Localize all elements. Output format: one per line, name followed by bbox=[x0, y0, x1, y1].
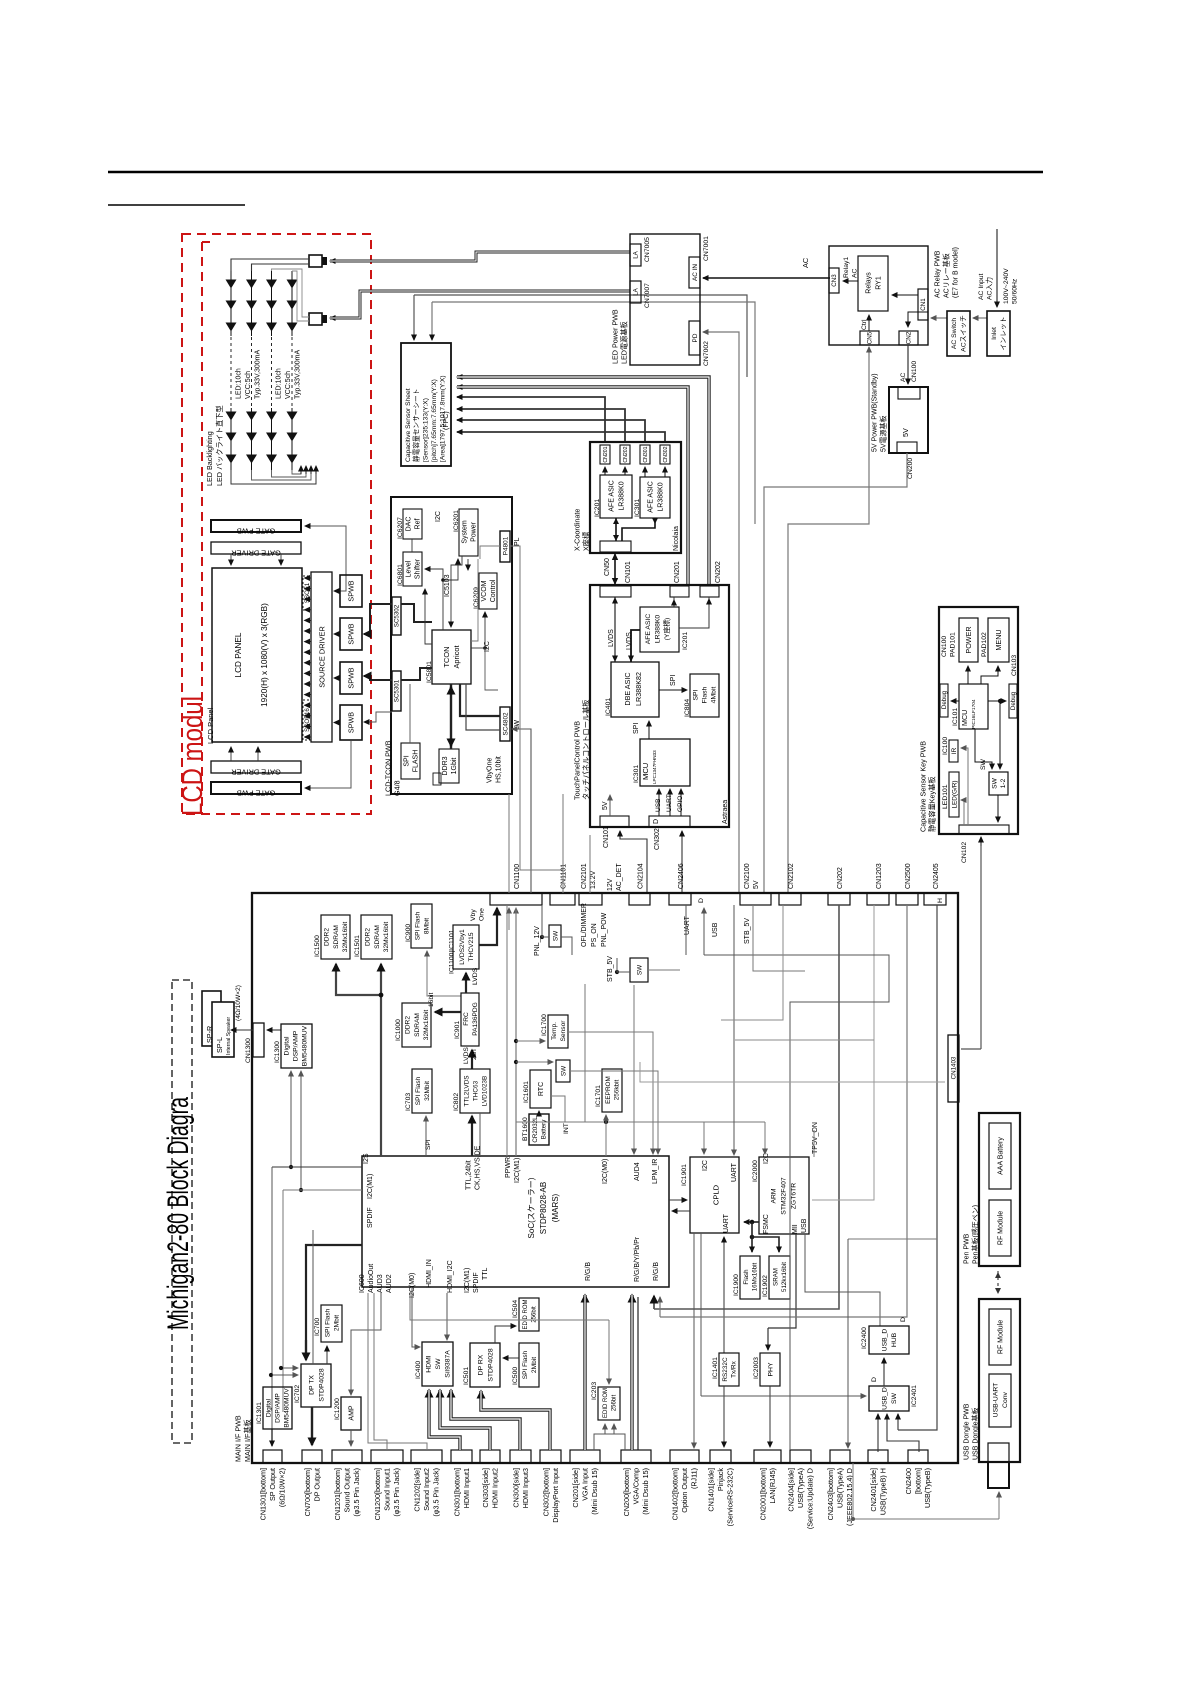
svg-text:32Mx16bit: 32Mx16bit bbox=[383, 922, 390, 953]
wire tcon-vcom i2c bbox=[471, 647, 485, 649]
CN1402 connector (bottom edge) bbox=[670, 1450, 699, 1463]
svg-text:SPDIF: SPDIF bbox=[367, 1207, 374, 1228]
dongle USB plug bbox=[988, 1462, 1009, 1488]
SW box (temp) bbox=[556, 1060, 570, 1082]
CN700 connector (bottom edge) bbox=[302, 1450, 322, 1463]
wire AC input to inlet bbox=[996, 229, 998, 307]
svg-text:Temp.: Temp. bbox=[551, 1022, 558, 1040]
svg-text:DSP/AMP: DSP/AMP bbox=[274, 1393, 281, 1423]
wire battery to RTC bbox=[538, 1111, 540, 1114]
svg-text:USB Dongle PWB: USB Dongle PWB bbox=[963, 1403, 970, 1460]
svg-text:ACスイッチ: ACスイッチ bbox=[960, 315, 968, 352]
svg-text:CN102: CN102 bbox=[961, 842, 968, 863]
svg-text:STDP4028: STDP4028 bbox=[318, 1368, 325, 1401]
svg-text:CN201[side]: CN201[side] bbox=[571, 1468, 580, 1508]
IC1100/IC1101 LVDS2Vby1 bbox=[453, 925, 479, 969]
pen-dongle dashed link bbox=[997, 1271, 999, 1294]
svg-text:One: One bbox=[479, 908, 486, 921]
wire cpld-option a bbox=[693, 1233, 695, 1447]
LCD-TCON PWB board bbox=[391, 497, 512, 794]
wire SPI to IC703 bbox=[425, 1116, 427, 1156]
wire CN202t-AFE bbox=[679, 597, 709, 628]
svg-text:CN101: CN101 bbox=[625, 561, 632, 583]
svg-text:LCD PANEL: LCD PANEL bbox=[234, 632, 243, 677]
wire tcon-ddr3 bus bbox=[450, 684, 452, 749]
wire SC5302 to SPWB bbox=[364, 604, 392, 634]
svg-text:AUD4: AUD4 bbox=[634, 1162, 641, 1181]
svg-text:CN2400: CN2400 bbox=[904, 1468, 913, 1494]
touch board top connector 1 bbox=[600, 586, 631, 597]
wire LED power run 2 (bus) bbox=[330, 291, 630, 318]
SW box (STB_5V) bbox=[630, 958, 648, 982]
svg-text:R/G/B: R/G/B bbox=[653, 1262, 660, 1281]
svg-text:CN2100: CN2100 bbox=[744, 863, 751, 889]
svg-text:(φ3.5 Pin Jack): (φ3.5 Pin Jack) bbox=[432, 1468, 441, 1517]
svg-text:1920(H) x 1080(V) x 3(RGB): 1920(H) x 1080(V) x 3(RGB) bbox=[260, 603, 269, 707]
svg-text:GATE DRIVER: GATE DRIVER bbox=[231, 549, 281, 558]
svg-text:IC1902: IC1902 bbox=[762, 1275, 769, 1297]
svg-text:AUD3: AUD3 bbox=[377, 1274, 384, 1293]
CN2101 connector (top edge) bbox=[579, 893, 602, 905]
svg-text:CN1101: CN1101 bbox=[561, 864, 568, 889]
wire arm-usb-hub bbox=[805, 1234, 880, 1326]
wire P4801 feed bbox=[480, 546, 500, 559]
Pen PWB board bbox=[979, 1113, 1020, 1266]
svg-text:LAN(RJ45): LAN(RJ45) bbox=[768, 1468, 777, 1504]
svg-text:LPM_IR: LPM_IR bbox=[652, 1159, 659, 1184]
svg-text:AMP: AMP bbox=[349, 1405, 356, 1421]
svg-text:STDP4028: STDP4028 bbox=[487, 1348, 494, 1381]
wire MCU to SW bbox=[975, 729, 992, 769]
svg-text:CPLD: CPLD bbox=[712, 1184, 721, 1205]
svg-text:IC1300: IC1300 bbox=[274, 1041, 281, 1063]
wire HUB-SW bbox=[883, 1358, 885, 1386]
LED connector 1 bbox=[309, 255, 322, 267]
svg-text:Digital: Digital bbox=[283, 1036, 290, 1055]
svg-text:PS_ON: PS_ON bbox=[591, 923, 598, 947]
svg-text:CN303[side]: CN303[side] bbox=[481, 1468, 490, 1508]
svg-text:Control: Control bbox=[490, 579, 497, 602]
svg-text:EDID ROM: EDID ROM bbox=[523, 1299, 529, 1329]
wire cn1100 up b bbox=[508, 794, 510, 893]
wire MCU to MENU pad bbox=[981, 666, 998, 684]
LCD module inner red dashed line bbox=[201, 242, 203, 814]
wire HDMI3 bus bbox=[451, 1390, 520, 1450]
svg-text:IC1901: IC1901 bbox=[681, 1164, 688, 1186]
CN200 connector (bottom edge) bbox=[621, 1450, 651, 1463]
svg-text:CN202: CN202 bbox=[623, 446, 629, 462]
SPWB to source driver arrow bbox=[334, 677, 340, 679]
svg-text:インレット: インレット bbox=[1001, 317, 1008, 351]
svg-text:USB(TypeA): USB(TypeA) bbox=[796, 1468, 805, 1508]
IC1301 digital DSP/AMP bbox=[263, 1387, 292, 1429]
AC Relay PWB board bbox=[829, 246, 928, 345]
svg-text:ZGT6TR: ZGT6TR bbox=[790, 1183, 797, 1210]
svg-text:VGA Input: VGA Input bbox=[581, 1468, 590, 1501]
IC401 DBE ASIC bbox=[611, 662, 659, 717]
svg-text:System: System bbox=[462, 520, 469, 544]
svg-text:IC1401: IC1401 bbox=[712, 1357, 719, 1379]
wire tcon-syspower bbox=[471, 559, 478, 641]
svg-text:SPI: SPI bbox=[404, 755, 411, 766]
LED string dashed continuation bbox=[271, 337, 273, 407]
svg-text:(φ3.5 Pin Jack): (φ3.5 Pin Jack) bbox=[352, 1468, 361, 1517]
svg-text:SPI Flash: SPI Flash bbox=[414, 911, 421, 940]
CN2403 connector (bottom edge) bbox=[830, 1450, 850, 1463]
svg-text:IC201: IC201 bbox=[682, 632, 689, 650]
IC1901 CPLD bbox=[690, 1157, 739, 1233]
svg-text:CN302: CN302 bbox=[654, 828, 661, 850]
svg-text:MCU: MCU bbox=[641, 763, 650, 780]
svg-text:5V電源基板: 5V電源基板 bbox=[878, 415, 887, 452]
SW 1-2 box bbox=[989, 772, 1008, 795]
svg-text:CN2: CN2 bbox=[906, 331, 913, 344]
svg-text:CN1200[bottom]: CN1200[bottom] bbox=[373, 1468, 382, 1520]
CN2406 connector (top edge) bbox=[669, 893, 691, 905]
CN3 connector bbox=[829, 268, 839, 293]
svg-text:LR388K0: LR388K0 bbox=[654, 615, 661, 644]
svg-text:LVDS2Vby1: LVDS2Vby1 bbox=[459, 929, 466, 965]
CN2102 connector (top edge) bbox=[779, 893, 801, 905]
wire DPTX aux bbox=[312, 1230, 314, 1364]
LA CN7007 connector bbox=[630, 281, 641, 303]
svg-text:PAD101: PAD101 bbox=[950, 632, 957, 657]
svg-text:ACリレー基板: ACリレー基板 bbox=[941, 253, 950, 298]
wire H bus bbox=[898, 905, 937, 1430]
svg-text:(6Ω/10W×2): (6Ω/10W×2) bbox=[278, 1468, 287, 1507]
svg-text:(Mini Dsub 15): (Mini Dsub 15) bbox=[641, 1468, 650, 1515]
wire i2c-cn1403 bbox=[640, 1062, 945, 1082]
svg-text:512kx16bit: 512kx16bit bbox=[781, 1262, 788, 1292]
svg-text:5V: 5V bbox=[602, 801, 609, 810]
capacitive sensor sheet box bbox=[401, 343, 451, 466]
svg-text:GATE PWB: GATE PWB bbox=[237, 789, 276, 798]
svg-text:CN1402[bottom]: CN1402[bottom] bbox=[671, 1468, 680, 1520]
wire THCV215 to CN1100 bbox=[479, 908, 497, 945]
svg-text:Level: Level bbox=[406, 560, 413, 577]
wire CN102 to IR bbox=[961, 748, 968, 825]
svg-text:G4/8: G4/8 bbox=[392, 780, 401, 796]
svg-text:Flash: Flash bbox=[743, 1269, 750, 1285]
svg-text:IC1700: IC1700 bbox=[541, 1014, 548, 1036]
svg-text:PPWR: PPWR bbox=[505, 1157, 512, 1178]
CN200 connector bbox=[897, 442, 917, 453]
svg-text:DDR2: DDR2 bbox=[365, 928, 372, 946]
svg-text:CR2032L: CR2032L bbox=[532, 1116, 539, 1143]
svg-text:SP Output: SP Output bbox=[268, 1468, 277, 1501]
wire IC1300 to CN1300 bbox=[267, 1029, 281, 1031]
wire hub link bbox=[848, 1238, 937, 1240]
svg-text:SC5301: SC5301 bbox=[394, 679, 401, 702]
svg-text:H: H bbox=[937, 898, 944, 903]
svg-text:I2C(M0): I2C(M0) bbox=[602, 1159, 609, 1184]
wire I2C to CPLD bbox=[703, 1122, 705, 1154]
svg-text:SW: SW bbox=[552, 930, 559, 941]
wire cn2500 bus bbox=[660, 905, 907, 1317]
wire hdmi i2c bbox=[446, 1293, 448, 1339]
svg-text:SSOF1: SSOF1 bbox=[304, 582, 311, 603]
wire sensor top feed 2 bbox=[432, 302, 755, 524]
svg-text:IC1501: IC1501 bbox=[354, 935, 361, 957]
wire hdmi-in bbox=[412, 1287, 419, 1347]
svg-text:SDRAM: SDRAM bbox=[374, 925, 381, 949]
Relays RY1 bbox=[858, 256, 888, 311]
wire DBE-flash SPI bbox=[659, 689, 687, 691]
svg-text:TouchPanelControl PWB: TouchPanelControl PWB bbox=[572, 721, 581, 800]
svg-text:TTL,24bit: TTL,24bit bbox=[465, 1160, 472, 1190]
svg-text:DSP/AMP: DSP/AMP bbox=[292, 1030, 299, 1061]
svg-text:CN100: CN100 bbox=[911, 361, 918, 382]
IC1900 flash bbox=[740, 1256, 760, 1299]
svg-text:IC203: IC203 bbox=[591, 1382, 598, 1400]
SPWB box 3 bbox=[340, 662, 362, 694]
wire AUD4 bbox=[633, 985, 635, 1154]
wire CN302-MCU (USB UART GPIO) bbox=[658, 789, 660, 816]
LED string dashed continuation bbox=[251, 337, 253, 407]
CN100 connector bbox=[898, 387, 920, 399]
wire HDMI1 bus bbox=[429, 1390, 460, 1450]
wire DisplayPort bus bbox=[481, 1391, 550, 1450]
wire IC5103 net bbox=[425, 569, 443, 630]
IC6207 DAC Ref bbox=[403, 509, 422, 539]
IC1000 DDR2 SDRAM bbox=[402, 1003, 431, 1047]
CN1203 connector (top edge) bbox=[867, 893, 889, 905]
wire PD to CN2100 bbox=[703, 332, 739, 893]
inlet box bbox=[987, 311, 1010, 356]
svg-text:POWER: POWER bbox=[964, 626, 973, 653]
svg-text:DDR2: DDR2 bbox=[324, 928, 331, 946]
wire sensor-CN301x bbox=[457, 420, 645, 442]
svg-text:DP RX: DP RX bbox=[477, 1354, 484, 1375]
svg-text:CN1300: CN1300 bbox=[245, 1038, 252, 1063]
wire sw-soc bbox=[570, 1071, 658, 1153]
svg-text:STDP8028-AB: STDP8028-AB bbox=[539, 1182, 548, 1234]
wire FRC to IC900 bbox=[427, 951, 461, 996]
wire AFE-Y to DBE (LVDS) bbox=[631, 630, 640, 662]
dongle edge connector bbox=[988, 1443, 1009, 1462]
svg-text:IC1500: IC1500 bbox=[314, 935, 321, 957]
svg-text:PHY: PHY bbox=[767, 1362, 774, 1376]
svg-text:Sound Input2: Sound Input2 bbox=[422, 1468, 431, 1511]
CN2404 connector (bottom edge) bbox=[790, 1450, 811, 1463]
wire CN201t-AFE bbox=[673, 597, 675, 607]
svg-text:CN2406: CN2406 bbox=[678, 863, 685, 889]
wire RS232C to CN1401 bbox=[723, 1386, 725, 1447]
wire I2C bus bbox=[516, 1121, 765, 1123]
svg-text:HDMI: HDMI bbox=[425, 1355, 432, 1372]
svg-text:Digital: Digital bbox=[265, 1398, 272, 1417]
CN2100 connector (top edge) bbox=[740, 893, 771, 905]
wire STB5V to SW bbox=[617, 958, 630, 972]
svg-text:TTL: TTL bbox=[482, 1267, 489, 1280]
panel-to-source-driver arrow column bbox=[305, 577, 312, 579]
svg-text:Sound Input1: Sound Input1 bbox=[383, 1468, 392, 1511]
svg-text:CN1201[bottom]: CN1201[bottom] bbox=[333, 1468, 342, 1520]
svg-text:(FPC): (FPC) bbox=[443, 411, 450, 430]
svg-text:SC5302: SC5302 bbox=[394, 604, 401, 627]
wire DPTX to IC700 bbox=[326, 1346, 328, 1364]
svg-text:SRAM: SRAM bbox=[772, 1268, 779, 1286]
svg-text:IC6207: IC6207 bbox=[397, 517, 404, 539]
svg-text:THC63: THC63 bbox=[472, 1080, 479, 1101]
svg-text:AC Switch: AC Switch bbox=[951, 318, 958, 350]
CN1201 connector (bottom edge) bbox=[332, 1450, 362, 1463]
svg-text:CN5: CN5 bbox=[867, 331, 874, 344]
svg-text:LA: LA bbox=[633, 250, 640, 258]
wire x-board to touch board bbox=[614, 553, 616, 585]
wire SC5301 to SPWB 2 bbox=[364, 712, 392, 722]
wire i2c-edid bbox=[410, 1293, 609, 1320]
svg-text:LCD Panel: LCD Panel bbox=[206, 707, 215, 744]
svg-text:MENU: MENU bbox=[994, 629, 1003, 650]
svg-text:Astraea: Astraea bbox=[722, 800, 729, 824]
svg-text:IC900: IC900 bbox=[405, 924, 412, 942]
FSMC bus bbox=[744, 1221, 759, 1223]
svg-text:Ctrl: Ctrl bbox=[861, 319, 868, 330]
SC5302 connector bbox=[392, 597, 401, 635]
svg-text:Conv: Conv bbox=[1002, 1391, 1009, 1407]
wire i2c down bbox=[485, 648, 498, 690]
svg-text:SoC(スケーラー): SoC(スケーラー) bbox=[527, 1177, 536, 1238]
svg-text:Pen PWB: Pen PWB bbox=[963, 1233, 970, 1264]
svg-text:[pitch]7.65mm:7.65mm(Y:X): [pitch]7.65mm:7.65mm(Y:X) bbox=[431, 379, 438, 462]
CN1100 connector (top edge) bbox=[490, 893, 542, 905]
svg-text:CN1203: CN1203 bbox=[876, 863, 883, 889]
svg-text:IC5103: IC5103 bbox=[444, 574, 451, 597]
svg-text:D: D bbox=[900, 1317, 907, 1322]
wire CPLD UART to RS232C bbox=[723, 1237, 725, 1353]
wire cn2406 down bbox=[685, 905, 687, 955]
svg-text:CN201: CN201 bbox=[603, 446, 609, 462]
wire I2C M0 to SoC bbox=[605, 1122, 607, 1156]
wire gate driver arrows (top) bbox=[230, 554, 232, 565]
wire cpld-usbsw bbox=[701, 1395, 864, 1397]
svg-text:SPI: SPI bbox=[633, 723, 640, 734]
svg-text:SPWB: SPWB bbox=[347, 667, 356, 688]
CN303 connector (bottom edge) bbox=[480, 1450, 500, 1463]
svg-text:VGA/Comp: VGA/Comp bbox=[632, 1468, 641, 1504]
svg-text:USB: USB bbox=[655, 798, 662, 812]
DDR3 1Gbit bbox=[439, 749, 459, 783]
IC804 SPI flash bbox=[690, 674, 719, 717]
wire cn2101 up bbox=[589, 835, 591, 893]
IC101 MCU (key) bbox=[959, 684, 988, 729]
wire LED bottom collect 3 bbox=[272, 470, 307, 477]
wire CN3-relay bbox=[843, 280, 858, 282]
svg-text:RTC: RTC bbox=[538, 1082, 545, 1096]
SPWB box 2 bbox=[340, 618, 362, 650]
wire sensor-touch CN201 (bus) bbox=[457, 387, 688, 586]
svg-text:12V: 12V bbox=[607, 878, 614, 891]
DDR bus wires bbox=[336, 964, 381, 1156]
LED string column 4 (top group) bbox=[291, 271, 293, 336]
svg-text:MAIN I/F PWB: MAIN I/F PWB bbox=[234, 1415, 243, 1462]
svg-text:INT: INT bbox=[563, 1123, 570, 1134]
svg-text:HDMI_I2C: HDMI_I2C bbox=[447, 1260, 454, 1293]
P4801 PL connector bbox=[500, 531, 510, 562]
svg-text:IC901: IC901 bbox=[454, 1021, 461, 1039]
LED string dashed continuation bbox=[230, 337, 232, 407]
svg-text:I2C: I2C bbox=[435, 511, 442, 522]
IC2003 PHY bbox=[760, 1353, 780, 1386]
X-coordinate PWB board bbox=[590, 442, 681, 553]
CN1301 connector (bottom edge) bbox=[263, 1450, 282, 1463]
svg-text:HDMI Input3: HDMI Input3 bbox=[521, 1468, 530, 1508]
svg-text:D: D bbox=[653, 819, 660, 824]
svg-text:CN302[bottom]: CN302[bottom] bbox=[541, 1468, 550, 1516]
wire CN102-CN1403 bbox=[961, 1048, 981, 1050]
svg-text:PNL_POW: PNL_POW bbox=[601, 912, 608, 947]
debug connector 1 bbox=[940, 684, 948, 717]
IC1500 DDR2 SDRAM bbox=[321, 915, 350, 959]
svg-text:CN7001: CN7001 bbox=[703, 236, 710, 261]
wire tcon-shifter bbox=[425, 589, 432, 644]
wire MCU to debug1 bbox=[951, 700, 959, 702]
svg-text:IC2400: IC2400 bbox=[861, 1327, 868, 1349]
CN302 connector (touch bottom) bbox=[649, 816, 690, 827]
svg-text:SW: SW bbox=[891, 1392, 898, 1404]
CN201 pin connector (x-board) bbox=[600, 445, 610, 464]
SC5301 connector bbox=[392, 671, 401, 711]
svg-text:Capacitive Sensor Sheet: Capacitive Sensor Sheet bbox=[405, 388, 412, 462]
wire sensor-touch CN202 (bus) bbox=[457, 377, 709, 586]
svg-text:LR388K0: LR388K0 bbox=[619, 481, 626, 510]
svg-text:SiI9387A: SiI9387A bbox=[445, 1350, 452, 1378]
wire FRC to THCV215 bbox=[465, 973, 467, 993]
SPWB to source driver arrow bbox=[334, 590, 340, 592]
wire gate driver arrows (bottom) bbox=[230, 747, 232, 761]
page header rule bbox=[108, 171, 1043, 174]
wire SC5301 staircase bbox=[401, 668, 432, 680]
svg-text:AFE ASIC: AFE ASIC bbox=[648, 481, 655, 513]
svg-text:USB(TypeA): USB(TypeA) bbox=[836, 1468, 845, 1508]
svg-text:CN2405: CN2405 bbox=[933, 863, 940, 889]
wire cn1101 up bbox=[562, 794, 564, 893]
LED101 LED(G/R) bbox=[949, 772, 959, 817]
wire VGA bus bbox=[583, 1295, 586, 1450]
svg-text:256bit: 256bit bbox=[611, 1394, 617, 1411]
svg-text:LED Backlighting: LED Backlighting bbox=[205, 431, 214, 486]
svg-text:(E7 for B model): (E7 for B model) bbox=[952, 247, 959, 298]
svg-text:IC1200: IC1200 bbox=[334, 1398, 341, 1420]
svg-text:LED:10ch: LED:10ch bbox=[276, 368, 283, 399]
svg-text:CN200: CN200 bbox=[907, 458, 914, 479]
svg-text:HDMI_IN: HDMI_IN bbox=[426, 1259, 433, 1288]
svg-text:256kbit: 256kbit bbox=[614, 1079, 621, 1100]
svg-text:GATE DRIVER: GATE DRIVER bbox=[231, 768, 281, 777]
svg-text:Internal Speaker: Internal Speaker bbox=[226, 1017, 232, 1055]
svg-text:8Mbit: 8Mbit bbox=[423, 918, 430, 934]
CN1 connector bbox=[918, 289, 928, 320]
svg-text:SSOF16: SSOF16 bbox=[304, 708, 311, 732]
svg-text:Ref: Ref bbox=[414, 519, 421, 530]
svg-text:IC802: IC802 bbox=[453, 1093, 460, 1111]
CN2405 connector (top edge) bbox=[924, 893, 946, 905]
svg-text:LVDS: LVDS bbox=[626, 632, 633, 650]
wire AFE to bottom connector bbox=[615, 518, 617, 541]
IC1700 temp sensor bbox=[548, 1015, 568, 1048]
svg-text:AC Input: AC Input bbox=[978, 273, 985, 300]
svg-text:AUD2: AUD2 bbox=[386, 1274, 393, 1293]
svg-text:P4801: P4801 bbox=[502, 536, 509, 555]
wire SPDIF bus bbox=[283, 1189, 362, 1191]
svg-text:32Mx16bit: 32Mx16bit bbox=[342, 922, 349, 953]
svg-text:IC600: IC600 bbox=[359, 1274, 366, 1293]
svg-text:50/60Hz: 50/60Hz bbox=[1012, 278, 1019, 304]
svg-text:LR388K82: LR388K82 bbox=[634, 672, 643, 706]
svg-text:CN7002: CN7002 bbox=[703, 341, 710, 366]
wire CN101touch to CN2104 bbox=[620, 831, 647, 893]
